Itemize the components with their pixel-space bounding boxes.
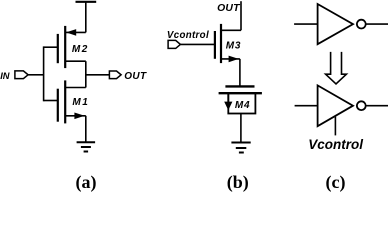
inverter U1 bubble	[357, 20, 366, 29]
svg-text:OUT: OUT	[124, 71, 147, 82]
wire M4 to ground	[240, 114, 242, 143]
wire M3 source lead	[221, 58, 240, 60]
inverter U2 triangle	[318, 85, 353, 126]
transistor M3 source arrow	[229, 56, 239, 63]
svg-text:Vcontrol: Vcontrol	[167, 30, 209, 41]
wire IN to riser	[28, 74, 43, 76]
wire drain-drain riser	[85, 61, 87, 87]
ground (a)	[77, 142, 96, 151]
inverter U1 triangle	[318, 4, 353, 44]
wire M2 source lead	[65, 31, 86, 33]
svg-text:M3: M3	[226, 40, 242, 51]
double arrow down	[326, 52, 347, 84]
wire M1 source lead	[65, 115, 86, 117]
svg-text:(b): (b)	[227, 172, 249, 193]
svg-text:M4: M4	[235, 100, 251, 111]
capacitor M4 bottom plate	[219, 92, 262, 94]
wire inverter U1 input	[294, 23, 318, 25]
transistor M1 source arrow	[74, 113, 84, 120]
svg-text:(a): (a)	[76, 172, 97, 193]
transistor M1 gate bar	[57, 89, 59, 122]
wire inverter U2 output	[366, 105, 388, 107]
svg-text:Vcontrol: Vcontrol	[308, 137, 363, 152]
svg-text:M2: M2	[72, 44, 89, 55]
wire M2 drain lead	[65, 60, 86, 62]
svg-text:IN: IN	[0, 71, 10, 81]
port IN pentagon	[15, 71, 28, 79]
port OUT pentagon	[109, 71, 121, 79]
transistor M3 channel bar	[220, 24, 222, 63]
VDD rail	[76, 1, 97, 3]
wire M1 source to ground	[85, 116, 87, 143]
wire to OUT port	[86, 74, 110, 76]
inverter U2 bubble	[357, 101, 366, 110]
transistor M1 channel bar	[64, 80, 66, 123]
svg-text:M1: M1	[72, 97, 89, 108]
port Vcontrol pentagon	[168, 40, 180, 48]
wire Vcontrol to M3 gate	[180, 43, 215, 45]
capacitor M4 top plate	[225, 85, 254, 87]
transistor M3 gate bar	[214, 31, 216, 59]
wire M2 gate lead	[44, 46, 58, 48]
transistor M4 body box	[228, 93, 255, 113]
transistor M2 source arrow	[66, 29, 76, 36]
wire M3 drain lead	[221, 29, 241, 31]
svg-text:(c): (c)	[326, 172, 346, 193]
wire input riser	[43, 46, 45, 101]
transistor M2 gate bar	[57, 34, 59, 63]
wire VDD to M2 source	[85, 2, 87, 33]
wire M1 drain lead	[65, 87, 86, 89]
wire M3 source to M4 gate	[239, 59, 241, 87]
transistor M4 bulk arrow	[227, 93, 229, 102]
transistor M2 channel bar	[64, 26, 66, 68]
wire OUT riser	[240, 1, 242, 30]
wire Vcontrol stub	[334, 117, 336, 136]
svg-text:OUT: OUT	[217, 3, 241, 14]
ground (b)	[231, 143, 250, 153]
wire inverter U2 input	[295, 105, 318, 107]
wire M1 gate lead	[44, 100, 58, 102]
wire inverter U1 output	[366, 23, 388, 25]
